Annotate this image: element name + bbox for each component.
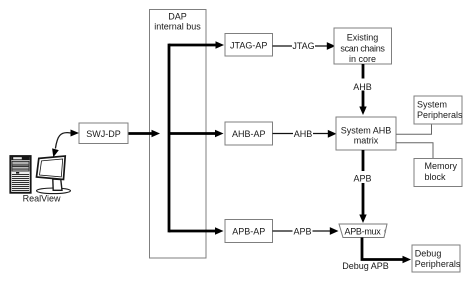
mux APB-mux — [339, 224, 387, 238]
svg-text:Peripherals: Peripherals — [415, 259, 461, 269]
wire curved connector RealView to SWJ-DP — [52, 130, 79, 158]
svg-text:Memory: Memory — [425, 161, 458, 171]
svg-text:System: System — [417, 99, 447, 109]
svg-text:AHB-AP: AHB-AP — [232, 129, 266, 139]
svg-text:DAP: DAP — [168, 12, 187, 22]
svg-text:APB: APB — [293, 226, 311, 236]
box JTAG-AP — [225, 34, 273, 57]
wire scan chains to matrix, label AHB — [350, 64, 376, 115]
wire matrix to Memory block — [396, 143, 433, 158]
svg-text:JTAG: JTAG — [292, 41, 314, 51]
svg-text:APB-AP: APB-AP — [232, 227, 265, 237]
svg-text:AHB: AHB — [294, 129, 313, 139]
computer icon RealView: monitor base — [37, 188, 71, 194]
wire JTAG-AP to scan chains, label JTAG — [273, 41, 336, 51]
svg-text:RealView: RealView — [23, 194, 61, 204]
box AHB-AP — [225, 122, 273, 145]
computer icon RealView: monitor stand — [53, 179, 62, 190]
wire DAP bus trunk — [168, 45, 171, 231]
box System Peripherals — [414, 96, 463, 124]
computer icon RealView: monitor screen — [37, 156, 66, 180]
svg-text:scan chains: scan chains — [340, 43, 385, 53]
computer icon RealView: tower — [10, 156, 30, 193]
wire matrix to APB-mux, label APB — [350, 150, 376, 223]
wire SWJ-DP to bus — [128, 130, 160, 137]
box Memory block — [414, 159, 462, 187]
box Existing scan chains in core — [334, 28, 392, 64]
box APB-AP — [225, 220, 273, 243]
wire bus to APB-AP — [169, 227, 224, 234]
svg-text:AHB: AHB — [353, 82, 372, 92]
svg-text:APB: APB — [353, 173, 371, 183]
wire bus to AHB-AP — [169, 130, 224, 137]
box Debug Peripherals — [412, 245, 461, 272]
svg-text:in core: in core — [349, 54, 376, 64]
wire matrix to System Peripherals — [396, 125, 432, 135]
svg-text:block: block — [425, 172, 447, 182]
svg-text:internal bus: internal bus — [154, 21, 201, 31]
box System AHB matrix — [336, 117, 396, 150]
box DAP internal bus — [150, 10, 207, 259]
box SWJ-DP — [79, 123, 128, 144]
wire bus to JTAG-AP — [169, 41, 224, 48]
svg-text:Existing: Existing — [347, 33, 379, 43]
wire AHB-AP to matrix, label AHB — [273, 129, 337, 139]
svg-text:Debug APB: Debug APB — [342, 261, 389, 271]
svg-text:matrix: matrix — [354, 135, 379, 145]
wire APB-mux to Debug Peripherals, label Debug APB — [342, 238, 411, 271]
svg-text:Peripherals: Peripherals — [417, 110, 463, 120]
svg-text:JTAG-AP: JTAG-AP — [230, 41, 267, 51]
svg-text:APB-mux: APB-mux — [345, 227, 382, 237]
svg-text:System AHB: System AHB — [341, 125, 392, 135]
svg-text:SWJ-DP: SWJ-DP — [86, 129, 121, 139]
wire APB-AP to APB-mux, label APB — [273, 226, 339, 236]
svg-text:Debug: Debug — [415, 248, 442, 258]
